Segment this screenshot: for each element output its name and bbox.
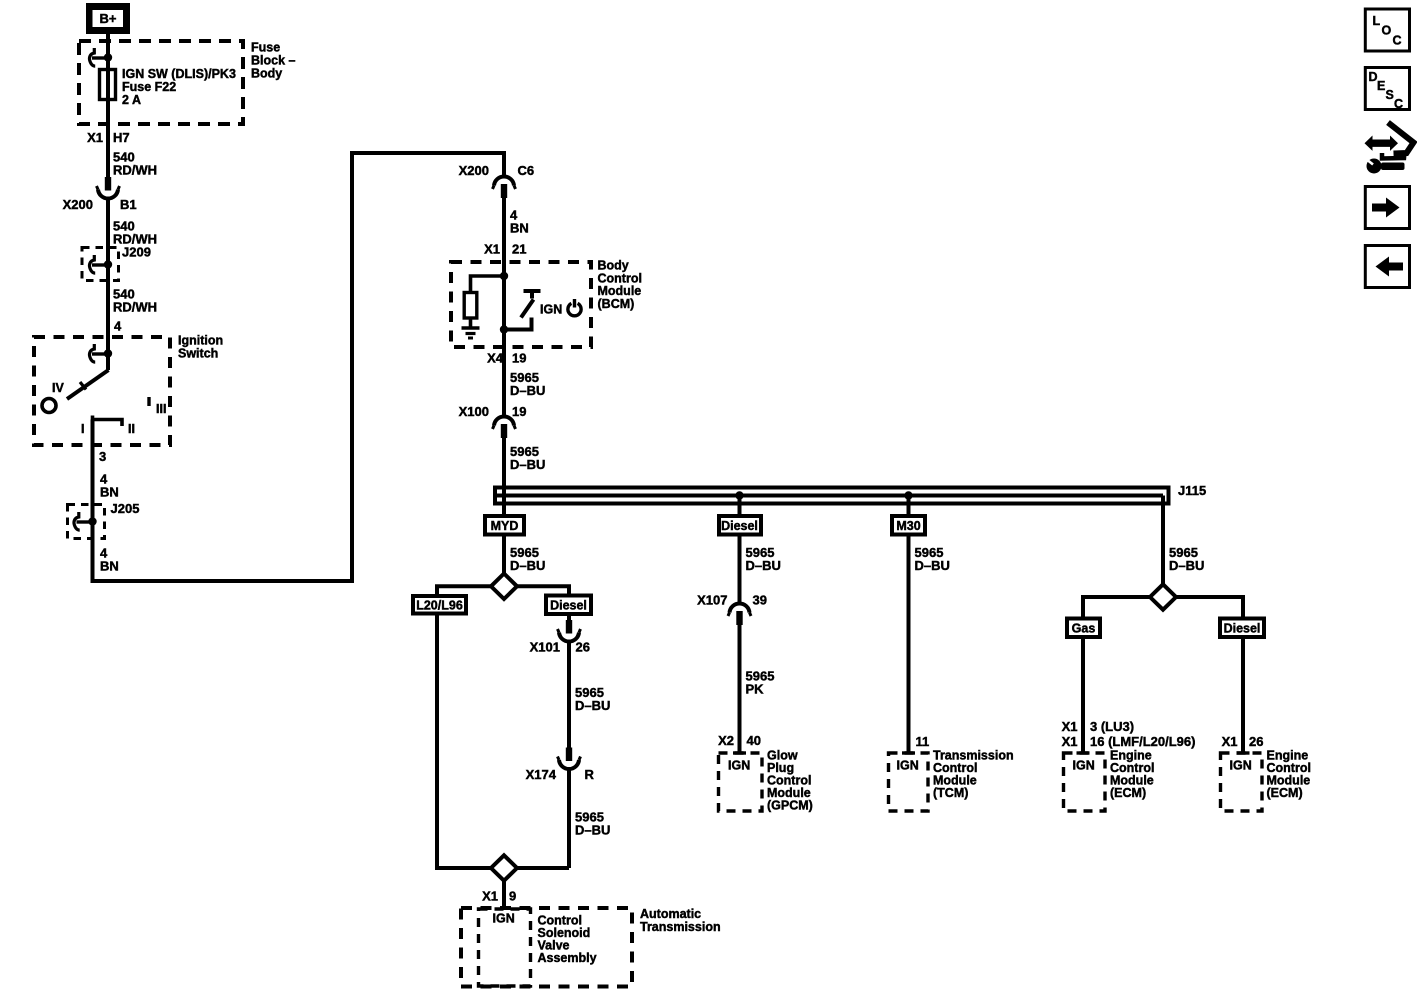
svg-text:26: 26 [576,640,590,655]
svg-text:IV: IV [52,381,64,395]
svg-text:D–BU: D–BU [510,457,545,472]
svg-text:C: C [1394,97,1403,111]
svg-text:X2: X2 [718,733,734,748]
svg-text:D–BU: D–BU [575,823,610,838]
option box Diesel [719,516,761,535]
svg-text:Transmission: Transmission [640,920,721,934]
connector X200 B1 [97,177,120,199]
svg-text:D–BU: D–BU [510,383,545,398]
option box Gas [1067,619,1100,638]
svg-text:II: II [128,422,135,436]
svg-text:11: 11 [916,734,930,749]
svg-text:4: 4 [114,319,122,334]
wire to J209 [106,199,110,357]
option box MYD [485,516,524,535]
wire BCM to X100 [502,349,506,417]
svg-text:Switch: Switch [178,347,218,361]
svg-text:X1: X1 [484,242,500,257]
svg-text:2 A: 2 A [122,93,141,107]
ignition sense switch in BCM [504,291,541,330]
svg-text:21: 21 [512,242,526,257]
icon DESC [1365,68,1409,112]
svg-text:Block –: Block – [251,54,296,68]
svg-text:J209: J209 [122,245,151,260]
wire M30 to TCM [907,534,911,753]
svg-text:B1: B1 [120,197,137,212]
wire to Gas option [1083,597,1150,618]
svg-text:X107: X107 [697,593,727,608]
wire X107 to GPCM [738,624,742,753]
svg-text:3 (LU3): 3 (LU3) [1090,719,1134,734]
svg-text:Gas: Gas [1072,622,1096,636]
svg-text:(TCM): (TCM) [933,786,968,800]
wire bus right tap down [1161,496,1165,586]
svg-text:I: I [81,422,84,436]
svg-text:Diesel: Diesel [1224,622,1261,636]
svg-text:26: 26 [1249,734,1263,749]
svg-text:D–BU: D–BU [746,558,781,573]
svg-text:MYD: MYD [491,519,519,533]
wire Diesel to X107 [738,534,742,604]
body control module dashed box [451,262,591,347]
svg-text:Automatic: Automatic [640,907,701,921]
bus bar J115 [495,488,1169,504]
option box L20/L96 [413,596,466,614]
wire X100 to bus [502,437,506,516]
wire to Diesel option [1176,597,1243,618]
svg-text:IGN: IGN [540,303,562,317]
svg-text:(BCM): (BCM) [598,297,635,311]
icon back arrow [1365,246,1409,288]
fuse F22 [100,57,116,101]
svg-text:16 (LMF/L20/L96): 16 (LMF/L20/L96) [1090,734,1195,749]
icon LOC [1365,9,1409,51]
svg-text:Ignition: Ignition [178,334,223,348]
svg-text:3: 3 [99,449,106,464]
pin stub [1237,751,1250,754]
svg-text:PK: PK [746,682,765,697]
svg-text:Fuse: Fuse [251,41,280,55]
wire B+ to fuse [106,34,110,70]
splice J205 [68,505,105,539]
glow plug control module dashed box [719,753,763,811]
svg-text:III: III [156,402,166,416]
connector X200 C6 [493,176,516,198]
svg-text:J115: J115 [1178,483,1206,498]
wire to L20/L96 [437,586,491,596]
svg-text:X100: X100 [459,404,489,419]
node M30 tap [904,491,912,499]
svg-text:D–BU: D–BU [510,558,545,573]
connector X107 39 [728,603,751,625]
svg-text:X1: X1 [87,130,103,145]
svg-text:X1: X1 [1062,734,1078,749]
fuse block body dashed box [79,41,243,124]
svg-text:Diesel: Diesel [550,599,587,613]
wire to diesel option [517,586,569,595]
wire Diesel to ECM [1241,637,1245,753]
wire MYD to diamond [502,537,506,576]
svg-text:O: O [1382,24,1392,38]
connector X100 19 [493,416,516,438]
wire X101 to X174 [567,641,571,749]
svg-text:B+: B+ [100,11,117,26]
svg-text:C6: C6 [518,163,535,178]
svg-text:IGN: IGN [1073,759,1095,773]
wire to solenoid assembly [502,881,506,908]
svg-text:(GPCM): (GPCM) [767,799,813,813]
option box M30 [892,516,925,535]
wire diesel to X101 [567,614,571,621]
svg-text:19: 19 [512,351,526,366]
wire resistor to ground [469,318,473,327]
node diesel tap [735,491,743,499]
svg-text:RD/WH: RD/WH [113,300,157,315]
wire J205 to BCM feed [93,153,505,581]
svg-text:X101: X101 [530,640,560,655]
svg-text:X1: X1 [1062,719,1078,734]
switch lever [67,353,109,399]
svg-text:19: 19 [512,404,526,419]
svg-text:M30: M30 [896,519,920,533]
svg-text:39: 39 [753,593,767,608]
connector X174 R [558,748,581,770]
battery terminal B+ [86,3,130,34]
connector X101 26 [558,620,581,642]
svg-text:IGN: IGN [1230,759,1252,773]
resistor in BCM [464,293,477,319]
wire L20/L96 to diamond [437,614,491,869]
power symbol [568,299,581,316]
BCM internal wire [502,260,506,349]
svg-text:R: R [585,767,595,782]
svg-text:IGN: IGN [897,759,919,773]
svg-text:Assembly: Assembly [538,951,597,965]
svg-text:(ECM): (ECM) [1110,786,1146,800]
wire bus to Diesel option [738,496,742,517]
svg-text:BN: BN [100,485,119,500]
pin stub [1077,751,1090,754]
svg-text:L: L [1373,14,1381,28]
svg-text:IGN: IGN [493,912,515,926]
splice diamond top [491,574,517,600]
icon harness routing [1365,123,1414,174]
svg-text:X174: X174 [526,767,557,782]
svg-text:D–BU: D–BU [575,698,610,713]
svg-text:X4: X4 [487,351,504,366]
wire Gas to ECM [1081,637,1085,753]
svg-text:9: 9 [509,889,516,904]
svg-text:S: S [1386,88,1394,102]
splice diamond right [1150,584,1176,609]
svg-text:IGN: IGN [728,759,750,773]
position II contact [93,416,135,437]
ground [462,328,480,338]
svg-text:E: E [1377,79,1385,93]
svg-text:40: 40 [747,733,761,748]
wire bus to M30 option [907,496,911,517]
wire X174 to diamond [567,769,571,869]
icon next arrow [1365,187,1409,229]
svg-text:BN: BN [510,221,529,236]
svg-text:D–BU: D–BU [1169,558,1204,573]
svg-text:Diesel: Diesel [721,519,758,533]
svg-text:C: C [1393,34,1402,48]
switch rotor circle [42,399,56,413]
pin stub [733,751,746,754]
svg-text:IGN SW (DLIS)/PK3: IGN SW (DLIS)/PK3 [122,67,236,81]
wire C6 to BCM [502,198,506,277]
svg-text:J205: J205 [111,501,140,516]
position label III [149,397,166,416]
svg-text:(ECM): (ECM) [1267,786,1303,800]
svg-text:Body: Body [251,67,282,81]
svg-text:L20/L96: L20/L96 [416,599,463,613]
svg-text:D–BU: D–BU [915,558,950,573]
svg-text:X200: X200 [63,197,93,212]
splice in ignition switch [89,344,112,362]
option box Diesel [1220,619,1264,638]
option box Diesel [546,596,591,615]
node top junction [500,272,508,280]
engine control module diesel dashed box [1221,753,1263,811]
node bottom junction [500,325,508,333]
wire fuse to X200 [106,99,110,177]
automatic transmission dashed box [461,908,632,987]
splice in fuse block [89,48,112,66]
engine control module gas dashed box [1064,753,1106,811]
splice diamond bottom [491,855,517,880]
svg-text:H7: H7 [113,130,130,145]
ignition switch dashed box [34,337,170,445]
svg-text:BN: BN [100,559,119,574]
output wire from switch [91,420,95,542]
splice J209 [82,248,119,281]
svg-text:X1: X1 [1222,734,1238,749]
svg-text:RD/WH: RD/WH [113,163,157,178]
wire to resistor [471,276,505,293]
svg-text:X1: X1 [482,889,498,904]
transmission control module dashed box [889,753,929,811]
control solenoid valve assembly dashed box [479,909,531,986]
svg-text:X200: X200 [459,163,489,178]
pin stub [902,751,915,754]
svg-text:Fuse F22: Fuse F22 [122,80,176,94]
wire right to diamond [517,866,569,870]
